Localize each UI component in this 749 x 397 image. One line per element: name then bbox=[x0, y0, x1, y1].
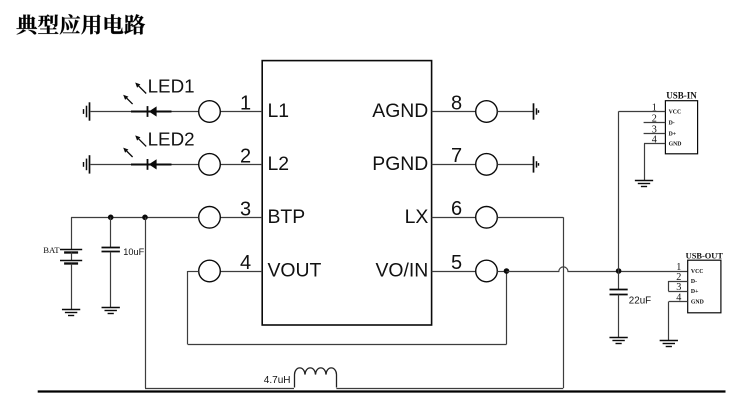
svg-text:PGND: PGND bbox=[372, 153, 428, 175]
svg-text:4.7uH: 4.7uH bbox=[264, 375, 291, 386]
svg-text:10uF: 10uF bbox=[123, 247, 144, 257]
svg-text:GND: GND bbox=[669, 142, 682, 148]
svg-text:22uF: 22uF bbox=[629, 295, 651, 306]
svg-text:VCC: VCC bbox=[669, 110, 682, 116]
svg-text:D+: D+ bbox=[691, 289, 699, 295]
svg-text:LX: LX bbox=[405, 206, 429, 228]
svg-text:D+: D+ bbox=[669, 132, 677, 138]
svg-text:VO/IN: VO/IN bbox=[376, 260, 429, 282]
svg-text:4: 4 bbox=[652, 135, 657, 146]
svg-text:VCC: VCC bbox=[691, 269, 704, 275]
svg-text:3: 3 bbox=[676, 282, 681, 293]
svg-text:BTP: BTP bbox=[268, 206, 306, 228]
svg-text:AGND: AGND bbox=[372, 100, 428, 122]
svg-text:VOUT: VOUT bbox=[268, 260, 322, 282]
svg-text:USB-OUT: USB-OUT bbox=[686, 251, 724, 260]
svg-text:1: 1 bbox=[652, 103, 657, 114]
svg-text:5: 5 bbox=[451, 252, 462, 274]
svg-text:6: 6 bbox=[451, 198, 462, 220]
svg-text:L1: L1 bbox=[268, 100, 290, 122]
svg-text:4: 4 bbox=[676, 293, 681, 304]
svg-text:BAT: BAT bbox=[43, 245, 60, 255]
svg-text:LED1: LED1 bbox=[148, 76, 195, 97]
svg-text:L2: L2 bbox=[268, 153, 290, 175]
svg-text:USB-IN: USB-IN bbox=[666, 91, 697, 101]
svg-text:2: 2 bbox=[652, 114, 657, 125]
svg-text:GND: GND bbox=[691, 300, 704, 306]
svg-text:LED2: LED2 bbox=[148, 129, 195, 150]
svg-text:D-: D- bbox=[691, 279, 697, 285]
svg-text:D-: D- bbox=[669, 121, 675, 127]
